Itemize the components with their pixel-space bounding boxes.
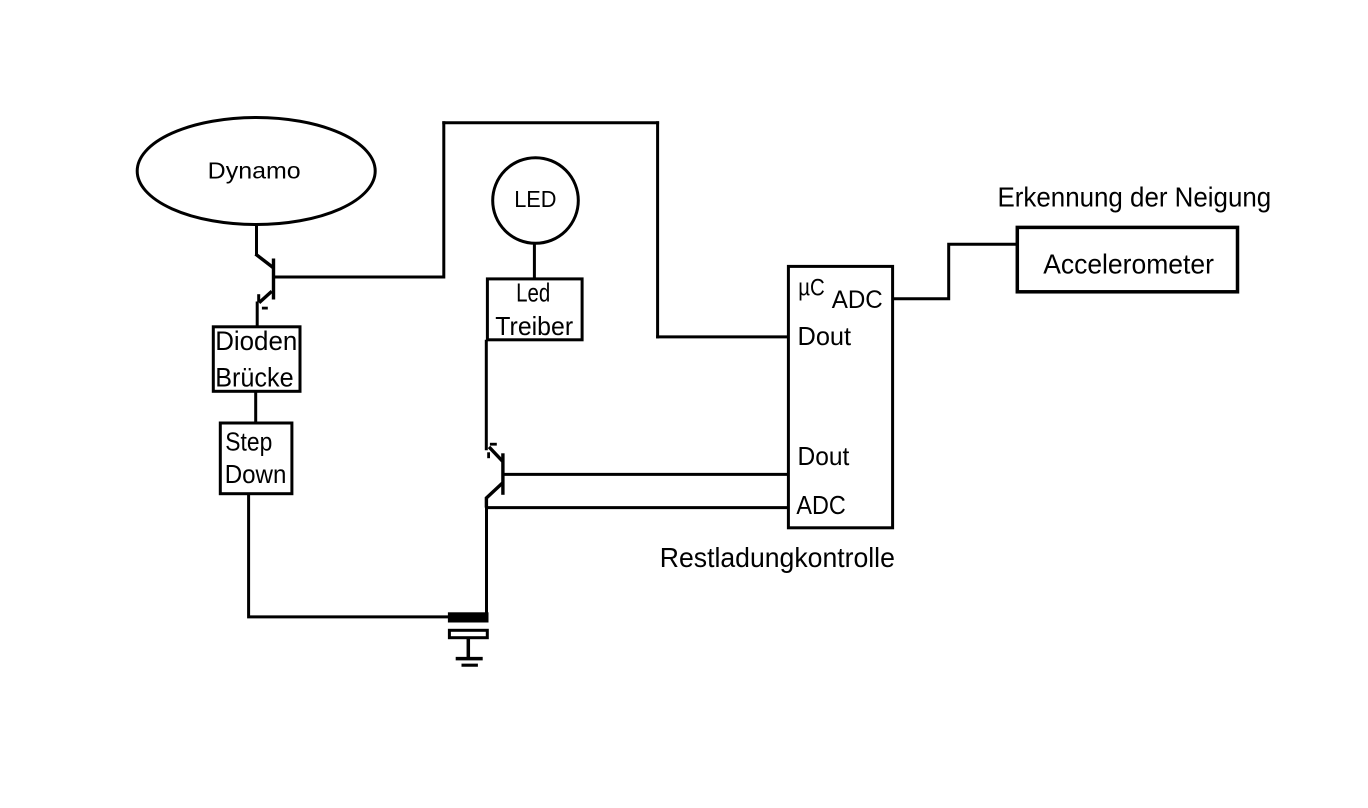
capacitor stem — [467, 638, 471, 658]
wire dynamo bottom to Q1 collector — [255, 225, 258, 256]
wire into uC Dout (top) — [656, 335, 788, 338]
svg-text:µC: µC — [798, 275, 825, 302]
svg-text:Treiber: Treiber — [495, 311, 573, 341]
capacitor C1 bottom plate — [449, 630, 487, 637]
transistor Q2 — [486, 444, 503, 507]
wire uC ADC to Accelerometer — [893, 244, 1016, 299]
svg-text:ADC: ADC — [796, 490, 845, 520]
svg-text:Brücke: Brücke — [215, 363, 293, 393]
svg-text:Led: Led — [516, 278, 550, 308]
svg-text:LED: LED — [514, 186, 556, 212]
svg-text:ADC: ADC — [832, 286, 883, 314]
wire LED to Led Treiber — [533, 243, 536, 279]
wire Q1 base to top rail (horizontal) — [274, 276, 446, 279]
wire top rail horizontal — [442, 121, 659, 124]
svg-text:Accelerometer: Accelerometer — [1043, 249, 1214, 280]
svg-text:Dout: Dout — [798, 441, 851, 471]
svg-text:Erkennung der Neigung: Erkennung der Neigung — [998, 181, 1272, 212]
svg-text:Restladungkontrolle: Restladungkontrolle — [660, 542, 895, 573]
wire top rail vertical left — [442, 121, 445, 275]
svg-text:Dout: Dout — [798, 321, 852, 351]
block Dioden Bruecke — [213, 326, 300, 392]
svg-text:Dioden: Dioden — [215, 326, 297, 356]
LED lamp (circle) — [493, 158, 579, 244]
block Step Down — [220, 423, 292, 494]
svg-text:Step: Step — [225, 427, 272, 457]
block Accelerometer — [1017, 227, 1237, 291]
svg-text:Dynamo: Dynamo — [208, 157, 301, 183]
capacitor C1 top plate — [448, 612, 489, 622]
block Dynamo (ellipse) — [137, 118, 375, 225]
wire Q1 emitter to Dioden Bruecke — [256, 302, 259, 328]
transistor Q1 — [256, 254, 274, 308]
wire Q2 emitter to uC ADC (bottom) — [485, 506, 788, 509]
wire top rail vertical right — [656, 121, 659, 338]
wire Dioden Bruecke to Step Down — [254, 391, 257, 423]
wire Q2 base to uC Dout (bottom) — [503, 473, 788, 476]
block uC (microcontroller) — [788, 266, 892, 527]
wire Step Down to capacitor — [249, 494, 449, 617]
wire Led Treiber to Q2 emitter arrow — [485, 340, 488, 451]
svg-text:Down: Down — [225, 459, 287, 489]
block Led Treiber — [487, 278, 582, 341]
wire Q2 emitter down to capacitor — [485, 506, 488, 613]
ground — [456, 659, 483, 666]
